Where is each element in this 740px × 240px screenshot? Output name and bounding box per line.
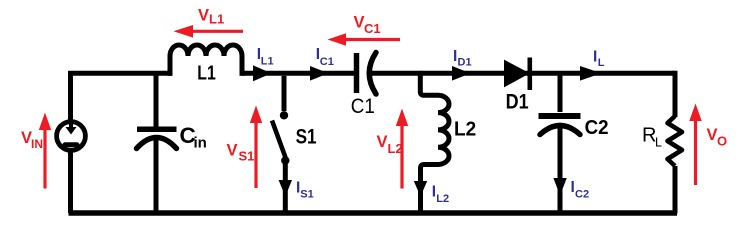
label L2 (454, 118, 476, 140)
voltage arrow VL2 (396, 109, 408, 189)
svg-text:S1: S1 (300, 189, 313, 201)
svg-text:IN: IN (31, 137, 43, 151)
capacitor Cin (137, 75, 177, 212)
label IL2 (432, 184, 449, 206)
current arrow IL (580, 66, 602, 81)
svg-text:C1: C1 (364, 21, 381, 36)
label S1 (296, 125, 317, 149)
label IS1 (296, 180, 314, 201)
voltage arrow VL1 (174, 25, 244, 38)
current arrow IL1 (253, 65, 272, 81)
svg-text:V: V (227, 141, 238, 159)
wire right rail (673, 71, 678, 214)
wire left rail (68, 71, 73, 213)
label VL2 (377, 133, 403, 156)
svg-text:in: in (194, 134, 207, 151)
svg-text:V: V (198, 6, 209, 24)
svg-text:S1: S1 (239, 148, 255, 163)
label Cin (180, 123, 207, 151)
label VC1 (354, 14, 381, 36)
svg-text:L: L (655, 136, 662, 150)
capacitor C1 (357, 53, 423, 95)
svg-text:L1: L1 (197, 63, 216, 85)
resistor RL (668, 116, 683, 166)
svg-text:O: O (717, 133, 727, 148)
voltage arrow VO (689, 104, 701, 186)
capacitor C2 (539, 75, 581, 212)
current arrow IS1 (279, 180, 292, 197)
svg-text:L1: L1 (261, 56, 274, 68)
svg-text:I: I (593, 49, 597, 66)
wire top rail from L1 to C1 (242, 71, 355, 76)
svg-text:V: V (377, 133, 388, 151)
label RL (642, 125, 662, 150)
svg-text:L2: L2 (388, 141, 403, 156)
svg-text:L2: L2 (454, 118, 476, 140)
svg-text:C2: C2 (585, 117, 609, 139)
diode D1 (504, 58, 530, 91)
svg-text:C1: C1 (351, 94, 375, 118)
label C1 (351, 94, 375, 118)
label L1 (197, 63, 216, 85)
label VIN (21, 129, 43, 151)
current arrow ID1 (452, 66, 471, 81)
voltage source VIN symbol (57, 121, 86, 150)
label IC1 (316, 46, 334, 68)
voltage arrow VIN (39, 113, 51, 189)
inductor L1 (170, 45, 242, 76)
svg-text:V: V (707, 126, 718, 144)
inductor L2 (420, 75, 449, 212)
svg-text:D1: D1 (506, 90, 529, 114)
label IC2 (571, 179, 590, 201)
svg-text:S1: S1 (296, 125, 317, 149)
label D1 (506, 90, 529, 114)
label IL1 (257, 46, 274, 68)
label VL1 (198, 6, 224, 26)
svg-text:L2: L2 (436, 193, 449, 205)
label VS1 (227, 141, 255, 163)
svg-text:L: L (598, 57, 605, 69)
wire top rail from C1/L2 to D1 (420, 71, 560, 76)
label IL (593, 49, 605, 69)
label VO (707, 126, 728, 148)
label C2 (585, 117, 609, 139)
svg-text:D1: D1 (458, 56, 472, 68)
svg-text:L1: L1 (209, 12, 224, 27)
current arrow IC1 (310, 66, 329, 81)
current arrow IC2 (553, 178, 566, 196)
svg-text:V: V (354, 14, 365, 32)
svg-text:C2: C2 (575, 188, 589, 200)
voltage arrow VC1 (328, 33, 401, 46)
current arrow IL2 (414, 181, 427, 197)
wire top rail left segment (69, 71, 173, 76)
svg-text:C1: C1 (320, 56, 334, 68)
switch S1 (272, 76, 289, 212)
wire top rail right segment (560, 71, 675, 76)
wire bottom rail (69, 210, 678, 216)
label ID1 (453, 48, 472, 68)
voltage arrow VS1 (250, 106, 262, 189)
